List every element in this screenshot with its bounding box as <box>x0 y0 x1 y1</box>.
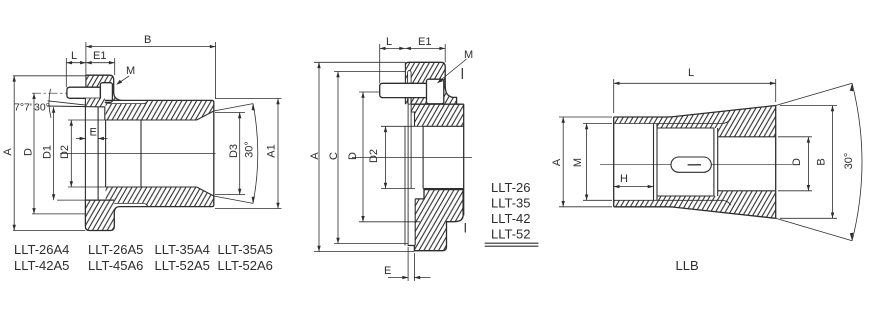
svg-text:E1: E1 <box>418 36 431 48</box>
svg-text:D3: D3 <box>228 144 240 158</box>
svg-text:L: L <box>386 36 392 48</box>
taper extension top <box>214 104 253 111</box>
plate verticals middle <box>404 126 406 245</box>
thread root top LLB <box>614 119 731 124</box>
30deg arc <box>852 83 862 240</box>
svg-text:D1: D1 <box>41 145 53 159</box>
body top band middle <box>411 104 463 126</box>
svg-text:30°: 30° <box>34 102 50 114</box>
angle arc right 30deg <box>253 104 258 204</box>
bolt shaft middle <box>380 83 427 97</box>
svg-text:LLT-26A4: LLT-26A4 <box>14 242 69 257</box>
svg-text:LLT-45A6: LLT-45A6 <box>88 258 143 273</box>
dimension E1 <box>114 58 116 75</box>
left face LLB <box>613 117 615 207</box>
slot bar <box>688 164 701 166</box>
bore cone top <box>657 127 714 129</box>
svg-text:E1: E1 <box>93 50 106 62</box>
bore top edge <box>106 119 197 121</box>
internal taper line 7deg <box>48 101 87 105</box>
bore left wall <box>105 120 107 187</box>
svg-text:LLT-42A5: LLT-42A5 <box>14 258 69 273</box>
dimension D1 <box>57 199 95 201</box>
svg-text:LLT-35A5: LLT-35A5 <box>218 242 273 257</box>
svg-text:D2: D2 <box>368 149 380 163</box>
taper extension bottom <box>214 196 253 203</box>
dimension A1 <box>215 98 282 100</box>
outer top line <box>614 106 776 118</box>
dimension D <box>32 213 85 215</box>
cap hatched block middle <box>405 62 456 104</box>
svg-text:H: H <box>620 173 628 185</box>
internal taper line 30deg <box>47 105 105 108</box>
dimension C <box>334 71 405 73</box>
svg-text:LLT-26: LLT-26 <box>491 180 531 195</box>
bolt head <box>100 83 112 103</box>
svg-text:M: M <box>464 49 473 61</box>
svg-text:30°: 30° <box>244 141 256 158</box>
dimension L LLB <box>613 79 615 113</box>
dimension D middle <box>359 91 380 93</box>
dimension D LLB <box>778 136 812 138</box>
dimension M LLB <box>583 123 612 125</box>
svg-text:LLT-26A5: LLT-26A5 <box>88 242 143 257</box>
taper band top <box>657 106 776 137</box>
centerline LLB <box>600 163 792 165</box>
svg-text:LLT-52A5: LLT-52A5 <box>155 258 210 273</box>
svg-text:L: L <box>71 50 77 62</box>
outer bottom line <box>614 207 776 219</box>
svg-text:LLT-35A4: LLT-35A4 <box>155 242 210 257</box>
slot oval <box>671 157 711 172</box>
svg-text:30°: 30° <box>843 153 855 170</box>
svg-text:E: E <box>90 127 97 139</box>
thread band bottom <box>614 200 668 207</box>
svg-text:LLT-52: LLT-52 <box>491 227 531 242</box>
bore left wall middle <box>422 126 424 188</box>
svg-text:B: B <box>144 34 151 46</box>
dimension D2 middle <box>381 125 423 127</box>
svg-text:LLT-52A6: LLT-52A6 <box>218 258 273 273</box>
svg-text:C: C <box>328 152 340 160</box>
flange hatched middle <box>414 190 463 251</box>
body bottom hatched band <box>106 187 214 207</box>
thread outer line <box>103 99 213 101</box>
angle arc left <box>49 89 51 118</box>
svg-text:D2: D2 <box>59 145 71 159</box>
bottom surface <box>114 207 212 213</box>
plate front face <box>84 98 86 200</box>
plate slot in cap <box>408 71 412 105</box>
svg-text:A: A <box>551 158 563 166</box>
dimension A LLB <box>559 116 612 118</box>
cap hatched block <box>86 75 121 100</box>
right face middle <box>463 104 465 215</box>
bore step verticals <box>653 124 655 201</box>
cap lower lip hatched <box>86 98 105 107</box>
svg-text:7°7': 7°7' <box>14 102 32 114</box>
taper band bottom <box>657 191 776 219</box>
bore taper top <box>197 111 214 120</box>
dimension L middle <box>379 44 381 83</box>
dimension A middle <box>314 61 405 63</box>
flange outline <box>85 200 114 230</box>
svg-text:A: A <box>309 152 321 160</box>
right face LLB <box>775 106 777 219</box>
dimension A <box>13 75 86 77</box>
double underline <box>485 242 539 244</box>
thread band top <box>614 117 668 124</box>
dimension D3 <box>215 111 245 113</box>
svg-text:D: D <box>22 148 34 156</box>
bolt hole centerline <box>32 92 67 94</box>
body left face <box>104 107 106 120</box>
30deg extension bottom <box>776 218 852 240</box>
insert right edge pair <box>713 128 715 196</box>
bore step <box>140 120 142 187</box>
thread root line <box>106 100 148 103</box>
bolt head middle <box>427 79 444 104</box>
svg-text:A1: A1 <box>266 144 278 157</box>
body top hatched band <box>106 100 214 120</box>
dimension B <box>85 42 87 75</box>
bottom thread root <box>114 203 148 206</box>
dimension E1 middle <box>444 44 446 62</box>
svg-text:L: L <box>688 67 694 79</box>
right face <box>212 100 214 206</box>
svg-text:LLB: LLB <box>676 258 699 273</box>
bore bottom edge <box>106 186 197 188</box>
bolt shaft <box>67 87 101 98</box>
svg-text:M: M <box>126 65 135 77</box>
svg-text:M: M <box>572 158 584 167</box>
svg-text:D: D <box>347 152 359 160</box>
flange hatched block <box>85 200 114 230</box>
bore edges middle <box>423 125 464 127</box>
I mark top <box>461 68 463 79</box>
svg-text:LLT-42: LLT-42 <box>491 211 531 226</box>
bore taper bottom <box>197 187 214 196</box>
dimension B LLB <box>780 105 837 107</box>
svg-text:LLT-35: LLT-35 <box>491 196 531 211</box>
svg-text:E: E <box>384 265 391 277</box>
centerline <box>60 153 216 155</box>
I mark bottom <box>464 223 466 233</box>
svg-text:D: D <box>791 158 803 166</box>
svg-text:A: A <box>2 148 14 156</box>
thread root bottom LLB <box>614 200 731 205</box>
dimension L <box>65 58 67 87</box>
30deg extension top <box>776 83 852 105</box>
centerline middle <box>352 157 472 159</box>
svg-text:B: B <box>816 158 828 165</box>
plate rear face <box>97 98 99 200</box>
dimension D2 <box>68 119 106 121</box>
bore cone bottom <box>657 195 714 197</box>
